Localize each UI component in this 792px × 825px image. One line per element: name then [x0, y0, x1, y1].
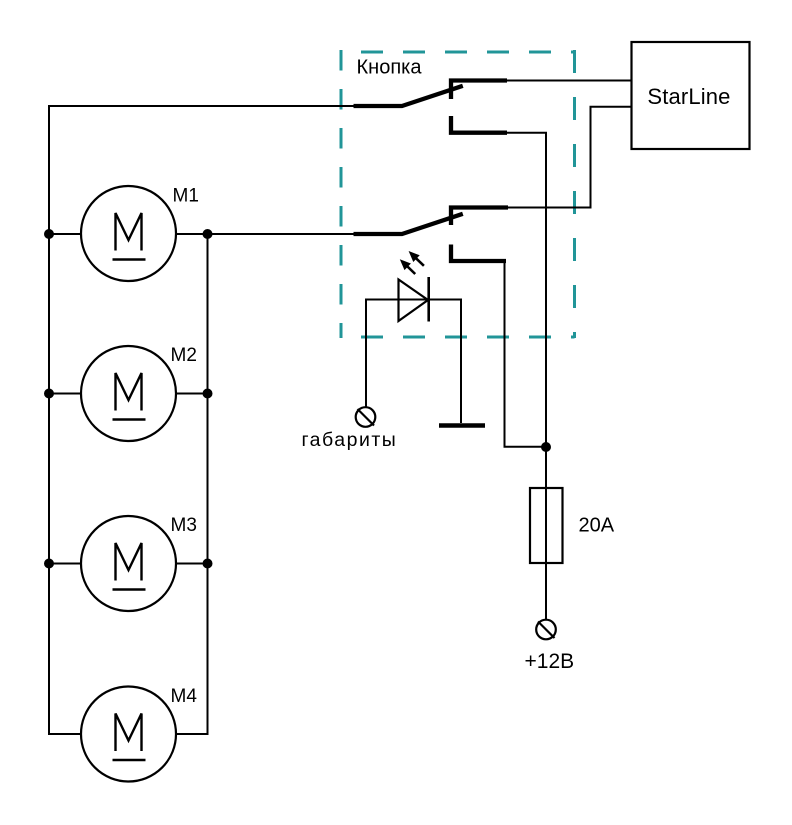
svg-text:+12В: +12В: [525, 650, 575, 673]
svg-text:M2: M2: [171, 345, 197, 366]
svg-text:StarLine: StarLine: [647, 84, 730, 109]
svg-text:Кнопка: Кнопка: [357, 57, 423, 79]
svg-text:20A: 20A: [579, 515, 615, 537]
svg-text:M4: M4: [171, 686, 198, 707]
svg-text:M1: M1: [173, 185, 199, 206]
svg-text:M3: M3: [171, 515, 197, 536]
svg-text:габариты: габариты: [302, 429, 398, 451]
